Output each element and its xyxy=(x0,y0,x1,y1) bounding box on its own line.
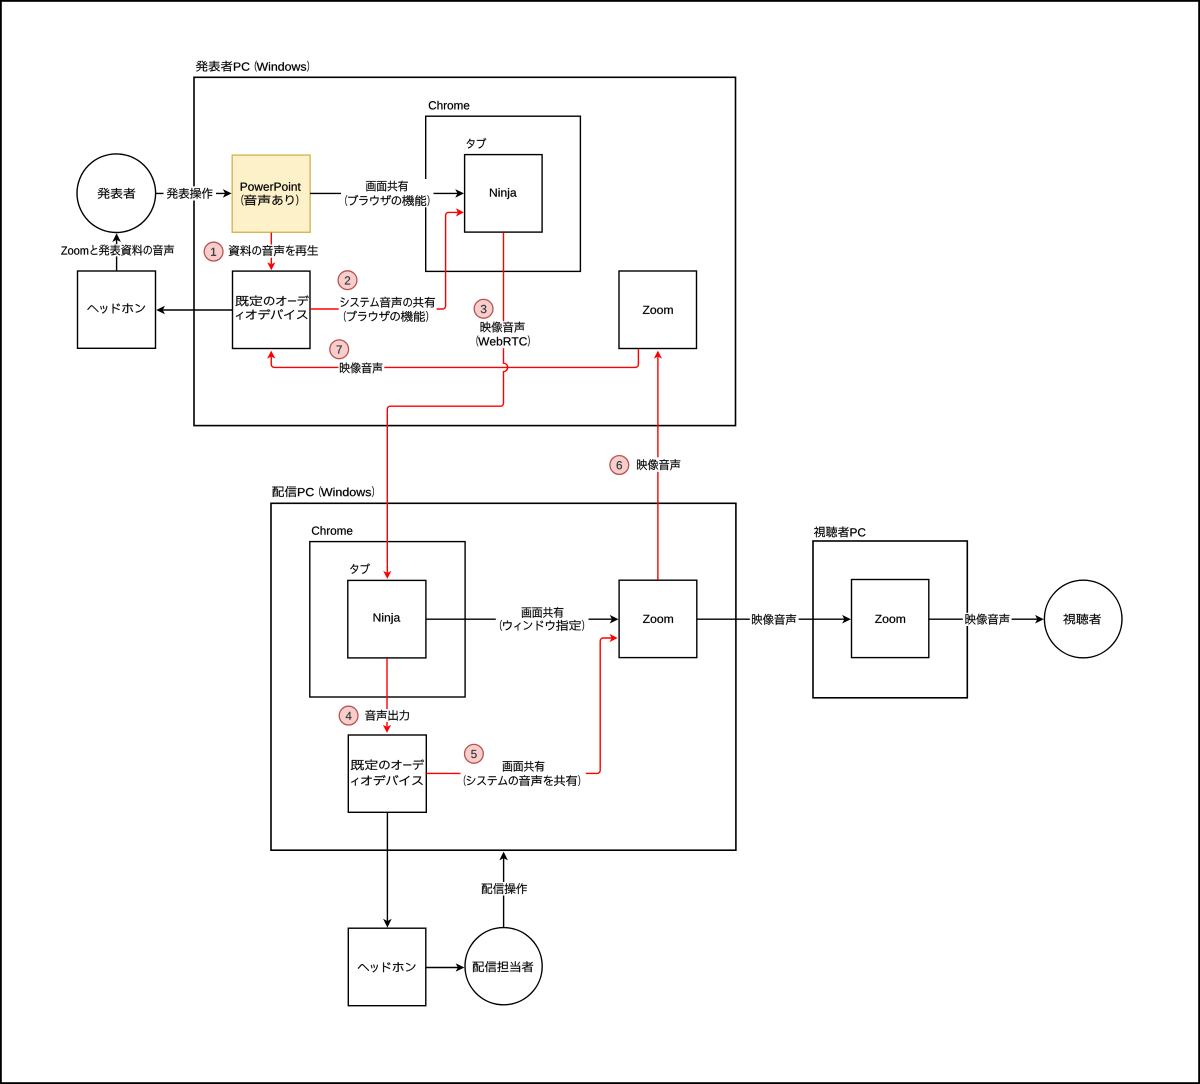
edge ヘッドホン→発表者 (Zoomと発表資料の音声) xyxy=(112,233,121,271)
label システム音声の共有（ブラウザの機能） (2) xyxy=(339,295,437,322)
edge 配信担当者→配信PC (配信操作) xyxy=(499,852,508,928)
container 視聴者PC xyxy=(813,541,967,698)
box 既定のオーディオデバイス (presenter) xyxy=(233,271,311,348)
label 映像音声 (streamer→viewer) xyxy=(750,613,799,626)
label 映像音声 (7) xyxy=(339,361,385,374)
label 視聴者PC xyxy=(814,527,866,538)
edge(red) 4 Ninja→既定のオーディオデバイス 音声出力 xyxy=(383,658,391,733)
text Zoom (presenter PC) xyxy=(643,306,673,314)
edge(red) 7 Zoom→既定のオーディオデバイス 映像音声 xyxy=(267,349,638,368)
node number 1 xyxy=(204,242,223,261)
text PowerPoint（音声あり） xyxy=(241,182,301,205)
text Ninja (presenter) xyxy=(490,188,517,199)
text Ninja (streamer) xyxy=(374,613,401,624)
edge 既定のオーディオデバイス→ヘッドホン (streamer) xyxy=(383,812,392,927)
text 既定のオーディオデバイス (streamer) xyxy=(351,760,424,786)
label 映像音声（WebRTC） (3) xyxy=(475,321,531,348)
label 配信PC（Windows） xyxy=(272,486,374,497)
edge(red) 5 既定のオーディオデバイス→Zoom 画面共有 xyxy=(427,634,618,774)
box Zoom (streamer PC) xyxy=(619,580,697,657)
node number 7 xyxy=(330,340,349,359)
label 映像音声 (viewer) xyxy=(963,613,1012,626)
edge(red) 2 既定のオーディオデバイス→Ninja システム音声の共有 xyxy=(310,208,464,309)
edge 既定のオーディオデバイス→ヘッドホン (presenter) xyxy=(156,306,232,315)
label 発表操作 xyxy=(164,186,217,200)
container 発表者PC (Windows) xyxy=(194,77,736,425)
node number 4 xyxy=(339,706,358,725)
text ヘッドホン (streamer) xyxy=(358,962,416,972)
text 既定のオーディオデバイス (presenter) xyxy=(236,296,309,320)
text Zoom (viewer PC) xyxy=(875,615,905,623)
node number 5 xyxy=(465,744,484,763)
container 配信PC (Windows) xyxy=(271,503,736,850)
node number 6 xyxy=(610,456,629,475)
box PowerPoint xyxy=(232,155,310,232)
label タブ (streamer) xyxy=(350,563,370,574)
text Zoom (streamer PC) xyxy=(643,615,673,623)
box 既定のオーディオデバイス (streamer) xyxy=(348,735,426,812)
label 音声出力 (4) xyxy=(364,709,410,722)
label Zoomと発表資料の音声 xyxy=(59,244,178,256)
text 発表者 xyxy=(98,188,136,199)
box ヘッドホン (presenter) xyxy=(78,271,156,348)
label 画面共有（ウィンドウ指定） xyxy=(496,605,589,632)
text ヘッドホン (presenter) xyxy=(87,303,145,313)
edge(red) 3 Ninja→Ninja 映像音声 WebRTC xyxy=(383,232,508,579)
edge Ninja→Zoom (画面共有 ウィンドウ指定) xyxy=(426,615,619,624)
edge(red) 6 Zoom→Zoom 映像音声 xyxy=(654,351,662,580)
edge PowerPoint→Ninja (画面共有 ブラウザの機能) xyxy=(310,189,464,198)
edge(red) 1 PowerPoint→既定のオーディオデバイス 資料の音声を再生 xyxy=(267,233,275,271)
box ヘッドホン (streamer) xyxy=(348,928,426,1006)
actor 発表者 xyxy=(77,154,156,233)
actor 配信担当者 xyxy=(465,928,542,1005)
box Zoom (viewer PC) xyxy=(852,580,929,658)
label Chrome (presenter) xyxy=(429,101,470,110)
edge 発表者→PowerPoint (発表操作) xyxy=(156,189,232,198)
label 配信操作 xyxy=(479,882,530,896)
box Ninja tab (streamer) xyxy=(348,580,426,658)
text 視聴者 xyxy=(1063,614,1101,625)
edge ヘッドホン→配信担当者 xyxy=(426,963,465,972)
label 映像音声 (6) xyxy=(635,457,683,472)
container Chrome (presenter) xyxy=(426,116,581,271)
label 画面共有（システムの音声を共有） (5) xyxy=(461,759,586,787)
label 資料の音声を再生 (1) xyxy=(227,245,321,258)
edge Zoom→視聴者 (映像音声) xyxy=(929,615,1044,624)
label 画面共有（ブラウザの機能） xyxy=(341,179,434,207)
container Chrome (streamer) xyxy=(310,542,465,697)
label タブ (presenter) xyxy=(467,138,487,149)
node number 3 xyxy=(474,299,493,318)
node number 2 xyxy=(338,271,357,290)
text 配信担当者 xyxy=(473,961,533,972)
box Ninja tab (presenter) xyxy=(465,155,542,233)
label Chrome (streamer) xyxy=(312,526,353,535)
label 発表者PC（Windows） xyxy=(196,61,309,72)
actor 視聴者 xyxy=(1044,580,1122,658)
edge Zoom→Zoom (映像音声 streamer→viewer) xyxy=(697,615,851,624)
box Zoom (presenter PC) xyxy=(619,271,697,349)
